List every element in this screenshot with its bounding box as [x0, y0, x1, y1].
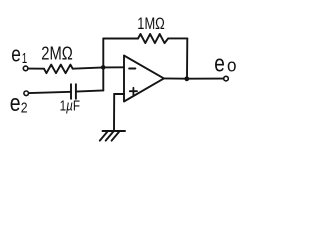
wire node B to output terminal — [187, 78, 224, 80]
wire feedback top left segment — [103, 38, 138, 40]
wire node A to op-amp inverting input — [103, 66, 124, 68]
svg-text:e: e — [11, 42, 21, 67]
ground symbol hatch stroke 3 — [112, 132, 120, 141]
op-amp U1 inverting input minus sign — [129, 68, 135, 70]
resistor R1 2M ohm — [44, 65, 73, 74]
node e2 input terminal — [24, 91, 29, 96]
op-amp U1 triangle — [124, 56, 164, 102]
wire feedback top right segment — [168, 37, 187, 39]
capacitor C1 1uF right plate — [75, 84, 77, 99]
capacitor C1 1uF left plate — [70, 84, 72, 99]
op-amp U1 non-inverting input plus sign — [130, 88, 137, 95]
node B output junction dot — [184, 76, 189, 81]
wire capacitor C1 to feedback left vertical corner — [76, 90, 103, 91]
wire resistor R1 to node A — [73, 67, 104, 68]
wire op-amp output to node B — [164, 77, 187, 79]
svg-text:2MΩ: 2MΩ — [41, 44, 73, 64]
svg-text:2: 2 — [21, 100, 28, 116]
svg-text:1: 1 — [22, 50, 28, 67]
resistor R2 1M ohm (feedback) — [138, 34, 168, 43]
wire feedback right vertical down to output node — [186, 38, 188, 78]
svg-text:e: e — [214, 51, 225, 78]
wire e2 terminal to capacitor C1 — [29, 92, 71, 93]
wire op-amp non-inverting input stub — [114, 93, 124, 95]
wire feedback left vertical (node A up to R2, down to C1) — [102, 39, 104, 91]
ground symbol hatch stroke 1 — [100, 132, 108, 141]
wire non-inverting input down to ground — [113, 94, 115, 131]
svg-text:e: e — [10, 90, 21, 117]
wire e1 terminal to resistor R1 — [28, 68, 44, 70]
node e1 input terminal — [23, 66, 28, 71]
ground symbol hatch stroke 2 — [106, 132, 114, 141]
node eo output terminal — [224, 76, 229, 81]
ground symbol bar — [103, 130, 126, 132]
svg-text:o: o — [227, 55, 237, 76]
svg-text:1µF: 1µF — [60, 98, 81, 115]
node A junction dot (summing node) — [101, 65, 106, 70]
svg-text:1MΩ: 1MΩ — [137, 15, 165, 33]
